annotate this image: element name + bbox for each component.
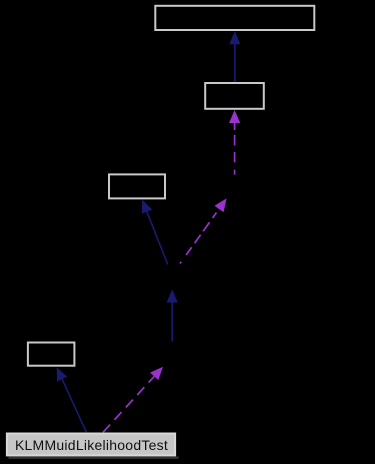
edge arrow7 solid navy KLMMuidLikelihoodTest to box4 [57,367,87,432]
node box3 (third rank left, empty) [109,174,165,198]
node box4 (fifth rank left, empty) [28,343,75,366]
svg-text:KLMMuidLikelihoodTest: KLMMuidLikelihoodTest [15,437,168,453]
edge arrow4 dashed purple (hidden node) to (hidden node) [180,198,227,263]
edge arrow2 dashed purple (hidden node) to box2 [229,110,240,175]
edge arrow5 solid navy (hidden node) to (hidden node) [167,290,178,342]
node box2 (second rank, empty) [205,83,264,109]
node KLMMuidLikelihoodTest shadow [8,456,178,459]
edge arrow6 dashed purple KLMMuidLikelihoodTest to (hidden node) [103,367,163,433]
edge arrow3 solid navy (hidden node) to box3 [142,200,168,265]
edge arrow1 solid navy box2 to box1 [229,31,240,82]
node KLMMuidLikelihoodTest (current, gray filled) [7,434,175,456]
node box1 (top, empty) [155,6,314,30]
